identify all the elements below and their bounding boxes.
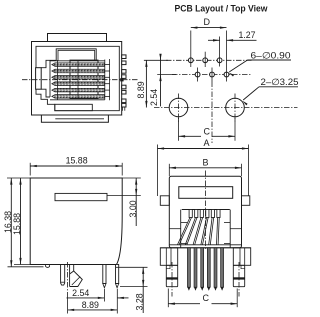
front: right snap post	[233, 265, 244, 286]
top view: lower window rect	[55, 104, 93, 110]
svg-text:2.54: 2.54	[149, 89, 159, 106]
top view: latch bump	[36, 68, 42, 90]
top view: top tab	[48, 34, 107, 42]
front: left snap post	[166, 265, 177, 286]
pcb: 6 pin holes 0.90mm	[188, 58, 193, 63]
svg-text:8.89: 8.89	[82, 300, 99, 310]
top view: vertical dividers over bars	[57, 60, 59, 100]
front: mounting ears	[160, 196, 169, 206]
side: extension lines left	[7, 177, 30, 179]
side: dimension 3.28	[116, 266, 148, 268]
svg-text:1.27: 1.27	[238, 30, 255, 40]
front: contact comb band	[182, 209, 230, 211]
svg-text:8.89: 8.89	[136, 81, 146, 98]
svg-text:3.00: 3.00	[128, 200, 138, 217]
side: dimension 2.54 pins	[103, 289, 105, 302]
svg-text:B: B	[202, 157, 208, 167]
svg-text:C: C	[203, 127, 210, 137]
front: left post housing block	[160, 248, 177, 265]
pcb: hole row horizontal centerline	[154, 107, 298, 109]
side: window slot	[55, 193, 107, 200]
pcb: pin hole vertical center ticks	[190, 53, 192, 67]
pcb: dimension C	[178, 118, 180, 141]
side: body outline with curved right edge	[30, 178, 122, 265]
svg-text:15.88: 15.88	[66, 155, 88, 165]
pcb: dimension 2.54 (row pitch)	[160, 54, 162, 106]
top view: contact bars	[52, 63, 105, 67]
front: vertical centerline	[205, 171, 207, 251]
side: standoff bump	[46, 265, 50, 268]
svg-text:C: C	[202, 293, 209, 303]
top view: solder tails on right edge	[122, 55, 126, 59]
side: solder pin 2	[116, 265, 119, 284]
side: dimension 15.88 height	[20, 178, 22, 265]
front: right post housing block	[233, 248, 250, 265]
pcb: dimension D	[190, 31, 192, 54]
side: dimension 16.38 height	[10, 178, 12, 267]
svg-text:D: D	[204, 17, 211, 27]
svg-text:6–∅0.90: 6–∅0.90	[251, 51, 291, 61]
side: post 2 with bent hook	[69, 265, 71, 287]
top view: outer body outline	[32, 42, 122, 116]
pcb: dimension 8.89	[145, 60, 147, 107]
top view: bottom tab	[41, 115, 108, 122]
front: plug window	[179, 187, 233, 199]
pcb: centerline down from C5 to front view	[211, 82, 213, 144]
pcb: hole vertical centerlines	[178, 94, 180, 122]
front: solder pins	[187, 248, 190, 287]
front: bottom shelf	[169, 244, 241, 246]
front: dimension B	[168, 164, 170, 176]
front: dimension C	[167, 289, 169, 308]
pcb: extension lines to 8.89/2.54 dims	[144, 59, 168, 61]
svg-text:2.54: 2.54	[72, 288, 89, 298]
pcb: dimension 1.27	[219, 37, 221, 54]
top view: horizontal centerline	[22, 79, 138, 81]
pcb: pin hole row centerlines	[166, 59, 252, 61]
svg-text:A: A	[203, 138, 209, 148]
top view: lower step near latch	[41, 89, 50, 97]
svg-text:2–∅3.25: 2–∅3.25	[261, 77, 299, 87]
front: body outline	[169, 176, 241, 248]
svg-text:15.88: 15.88	[12, 213, 22, 235]
pcb: big mounting holes 3.25mm	[169, 98, 188, 117]
side: dimension 8.89	[68, 309, 118, 311]
front: inner walls	[180, 210, 182, 248]
side: dimension 3.00	[122, 177, 141, 179]
svg-text:PCB Layout / Top View: PCB Layout / Top View	[175, 4, 269, 14]
side: post 1 (hollow)	[61, 265, 65, 286]
top view: centerline junction blob	[120, 78, 123, 81]
top view: upper step contour	[41, 49, 96, 68]
front: dimension A	[157, 145, 159, 197]
side: dimension 15.88 top width	[29, 163, 31, 176]
side: solder pin 1	[103, 265, 106, 284]
front: contact wires fan	[178, 218, 190, 245]
top view: contact window box	[70, 60, 98, 98]
svg-text:3.28: 3.28	[135, 293, 145, 310]
top view: inner shell outline with staircase	[36, 46, 119, 110]
top view: bars region bounding lines	[50, 60, 105, 62]
